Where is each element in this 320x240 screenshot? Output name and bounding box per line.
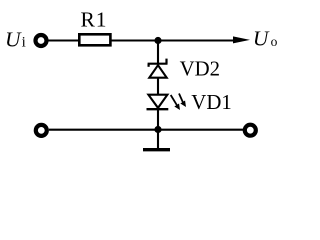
label Ui [5,27,26,51]
label Uo [253,27,278,51]
svg-text:R1: R1 [81,7,108,31]
svg-text:U: U [253,27,270,51]
svg-text:i: i [22,35,26,51]
wire: bottom rail [49,129,243,131]
svg-text:VD1: VD1 [191,91,231,114]
LED VD1 [147,94,187,111]
svg-text:VD2: VD2 [180,58,220,81]
svg-text:U: U [5,27,22,51]
wire: vertical branch node A to VD2 [157,41,159,65]
wire: node A to output arrow [158,39,234,41]
wire: VD2 to VD1 [157,78,159,95]
arrow to Uo [233,36,250,43]
zener diode VD2 [148,59,168,78]
terminal: input bottom [36,125,47,136]
svg-text:o: o [271,34,278,49]
terminal: input top [36,35,47,46]
wire: input to resistor [49,39,80,41]
node A (top junction) [154,37,161,44]
node B (bottom junction) [154,126,161,133]
terminal: output bottom [245,125,256,136]
wire: resistor to node A [112,39,159,41]
resistor R1 [79,34,110,45]
wire: VD1 to node B [157,109,159,130]
ground [143,130,170,150]
